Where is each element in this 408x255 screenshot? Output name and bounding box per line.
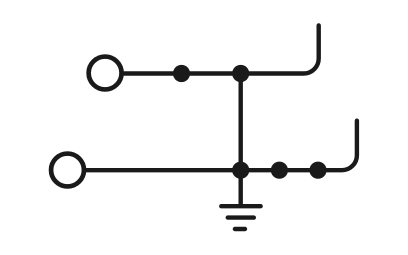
wire top: terminal 1 to upper-right curved conductor end (124, 25, 319, 73)
test point dot 2 on bottom wire (309, 162, 326, 179)
ground (PE) symbol bar 1 (221, 204, 260, 208)
ground (PE) symbol bar 3 (235, 227, 245, 231)
junction B (bottom, bridge tap) (232, 162, 249, 179)
ground (PE) symbol bar 2 (228, 215, 254, 219)
wire bottom: terminal 2 to lower-right curved conductor end (86, 121, 357, 171)
wire: ground stem from junction B (238, 170, 242, 206)
terminal circle 1 (top feed-through point) (89, 57, 122, 90)
test point dot on top wire (173, 65, 190, 82)
test point dot 1 on bottom wire (271, 162, 288, 179)
terminal circle 2 (bottom feed-through point) (51, 154, 84, 187)
junction A (top, bridge tap) (232, 65, 249, 82)
wire: vertical bridge between junction A and junction B (238, 74, 242, 171)
